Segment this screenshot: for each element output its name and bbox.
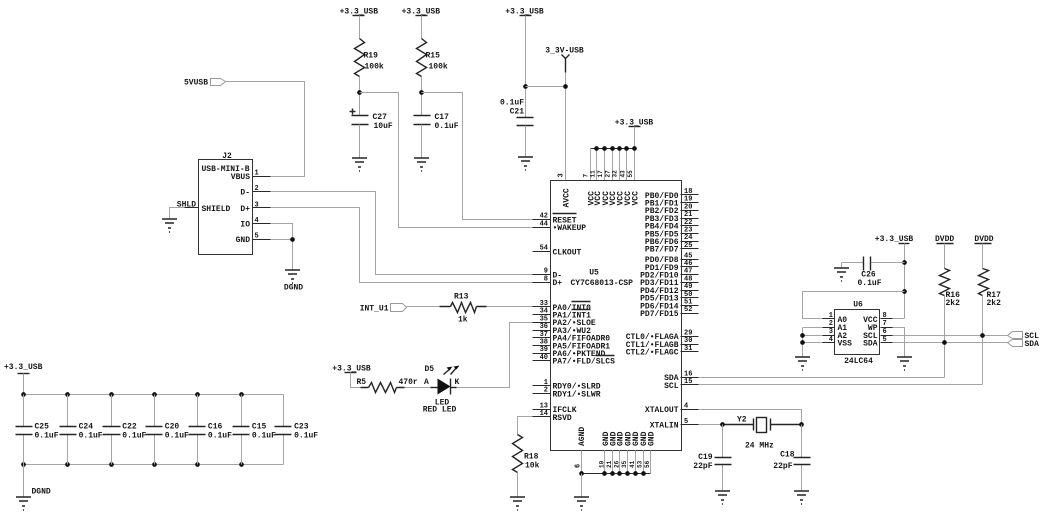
wire RSVD to R18 — [518, 417, 533, 435]
svg-text:R19: R19 — [364, 52, 379, 61]
wire DVDD to R16 — [944, 244, 946, 269]
junction top rail dots — [21, 392, 26, 397]
junction VSS — [800, 340, 805, 345]
svg-text:DVDD: DVDD — [974, 235, 993, 244]
capacitor C15 — [241, 395, 243, 465]
wire C17 to ground — [421, 125, 423, 158]
pin 39 PA6/*PKTEND — [533, 353, 551, 355]
SECTION: U5 main IC — [533, 170, 699, 510]
node 3_3V-USB stub symbol — [562, 55, 570, 73]
svg-text:11: 11 — [589, 170, 596, 178]
svg-text:32: 32 — [612, 170, 619, 178]
resistor R13 — [440, 303, 487, 313]
pin 3 A2 — [823, 335, 835, 337]
wire node to WAKEUP — [360, 93, 533, 228]
svg-text:2k2: 2k2 — [946, 299, 961, 308]
svg-text:+3.3_USB: +3.3_USB — [875, 235, 914, 244]
svg-text:27: 27 — [604, 170, 611, 178]
junction C21 node — [523, 84, 528, 89]
junction VCC bus dots — [594, 146, 599, 151]
pin 7 WP — [881, 327, 893, 329]
wire R16 to SDA net — [944, 296, 946, 378]
svg-text:52: 52 — [684, 306, 692, 314]
svg-text:D-: D- — [240, 189, 250, 198]
connector J2 box — [199, 160, 253, 255]
junction SDA pullup — [942, 340, 947, 345]
svg-text:D+: D+ — [553, 279, 563, 288]
wire +3.3 down right rail — [904, 244, 906, 319]
svg-text:DGND: DGND — [284, 284, 303, 293]
svg-text:25: 25 — [684, 242, 692, 250]
svg-text:0.1uF: 0.1uF — [294, 431, 318, 440]
wire C21 to ground — [525, 126, 527, 157]
svg-text:24 MHz: 24 MHz — [745, 442, 774, 451]
wire LED to PA2 — [451, 387, 457, 389]
svg-text:R13: R13 — [454, 293, 469, 302]
pin 48 PD3/FD11 — [681, 282, 699, 284]
pin 2 A1 — [823, 327, 835, 329]
pin 16 SDA — [681, 377, 699, 379]
svg-text:0.1uF: 0.1uF — [208, 431, 232, 440]
svg-text:10uF: 10uF — [374, 122, 393, 131]
ground R18 — [510, 497, 525, 510]
pin 25 PB7/FD7 — [681, 248, 699, 250]
pin 2 D- — [253, 191, 271, 193]
wire 3_3V-USB down to AVCC — [526, 73, 566, 181]
wire D- from J2 to U5 — [271, 192, 533, 275]
svg-text:CY7C68013-CSP: CY7C68013-CSP — [571, 279, 634, 288]
svg-text:AVCC: AVCC — [563, 188, 572, 207]
svg-text:XTALOUT: XTALOUT — [645, 406, 679, 415]
svg-text:35: 35 — [621, 460, 628, 468]
pin 15 SCL — [681, 384, 699, 386]
svg-text:DVDD: DVDD — [935, 235, 954, 244]
wire A1 A2 VSS to ground — [803, 328, 823, 357]
svg-text:C16: C16 — [208, 422, 223, 431]
capacitor C24 — [67, 395, 69, 465]
svg-text:SDA: SDA — [863, 340, 878, 349]
wire SHIELD to ground — [170, 208, 185, 219]
wire U5 SCL net — [699, 336, 983, 385]
pin 5 GND — [253, 239, 271, 241]
wire VCC bus — [591, 148, 635, 150]
junction GND bus dots — [579, 471, 584, 476]
wire IO to GND junction — [271, 224, 293, 240]
resistor R5 — [361, 383, 405, 393]
junction bottom rail dots — [21, 462, 26, 467]
svg-text:100k: 100k — [429, 63, 448, 72]
svg-text:XTALIN: XTALIN — [650, 422, 679, 431]
svg-text:100k: 100k — [365, 63, 384, 72]
svg-text:C18: C18 — [780, 450, 795, 459]
svg-text:24LC64: 24LC64 — [844, 357, 873, 366]
pin 1 RDY0/*SLRD — [533, 385, 551, 387]
junction crystal right — [799, 422, 804, 427]
svg-text:C20: C20 — [165, 422, 180, 431]
svg-text:5: 5 — [255, 233, 259, 241]
pin 19 PB1/FD1 — [681, 202, 699, 204]
pin 8 D+ — [533, 282, 551, 284]
pin 4 IO — [253, 223, 271, 225]
ground U5 AGND — [574, 497, 589, 510]
pin 40 PA7/*FLD/SLCS — [533, 360, 551, 362]
pin 4 VSS — [823, 342, 835, 344]
wire U5 SDA net — [699, 343, 945, 378]
junction R19/C27 — [357, 90, 362, 95]
pin 24 PB6/FD6 — [681, 241, 699, 243]
pin 5 XTALIN — [681, 424, 699, 426]
pin 44 *WAKEUP — [533, 227, 551, 229]
pin 29 CTL0/*FLAGA — [681, 336, 699, 338]
svg-text:SCL: SCL — [664, 382, 679, 391]
svg-text:D5: D5 — [425, 365, 435, 374]
pin 34 PA1/INT1 — [533, 314, 551, 316]
ground C18 — [794, 491, 809, 504]
node INT_U1 flag — [391, 304, 407, 312]
junction R15/C17 — [419, 90, 424, 95]
node SDA flag — [1008, 340, 1023, 347]
svg-text:•WAKEUP: •WAKEUP — [553, 224, 587, 233]
svg-text:0.1uF: 0.1uF — [435, 122, 459, 131]
svg-text:4: 4 — [255, 217, 259, 225]
svg-text:RED LED: RED LED — [423, 405, 457, 414]
svg-text:CTL2/•FLAGC: CTL2/•FLAGC — [626, 349, 679, 358]
pin 35 PA2/*SLOE — [533, 322, 551, 324]
svg-text:10k: 10k — [525, 462, 540, 471]
ground DGND under J2 — [285, 270, 300, 283]
crystal Y2 — [723, 419, 802, 431]
junction SCL pullup — [980, 333, 985, 338]
wire C27 to ground — [359, 125, 361, 158]
svg-text:C21: C21 — [510, 108, 525, 117]
ground C21 — [518, 157, 533, 170]
wire GND bus — [582, 473, 651, 475]
svg-text:VCC: VCC — [632, 191, 641, 206]
svg-text:0.1uF: 0.1uF — [857, 279, 881, 288]
capacitor C18 — [801, 425, 803, 491]
capacitor C27 (polarized) — [352, 116, 369, 125]
svg-text:54: 54 — [540, 245, 548, 253]
capacitor C19 — [722, 425, 724, 491]
svg-text:5VUSB: 5VUSB — [184, 78, 208, 87]
wire +3.3 to top rail — [23, 374, 25, 395]
svg-text:0.1uF: 0.1uF — [79, 431, 103, 440]
node 5VUSB flag — [211, 79, 226, 86]
svg-text:53: 53 — [637, 460, 644, 468]
wire GND to DGND — [271, 240, 293, 270]
ground U6 left — [795, 357, 810, 370]
svg-text:A: A — [424, 378, 429, 387]
svg-text:8: 8 — [883, 312, 887, 320]
svg-text:R5: R5 — [357, 378, 367, 387]
resistor R18 — [513, 435, 523, 473]
svg-text:470r: 470r — [399, 378, 418, 387]
svg-text:CLKOUT: CLKOUT — [553, 248, 582, 257]
svg-text:PB7/FD7: PB7/FD7 — [645, 246, 679, 255]
pin 31 CTL2/*FLAGC — [681, 351, 699, 353]
svg-text:PA7/•FLD/SLCS: PA7/•FLD/SLCS — [553, 358, 616, 367]
svg-text:5: 5 — [883, 336, 887, 344]
pin 18 PB0/FD0 — [681, 194, 699, 196]
svg-text:C19: C19 — [698, 453, 713, 462]
capacitor C21 — [517, 118, 534, 126]
svg-text:0.1uF: 0.1uF — [165, 431, 189, 440]
pin 4 XTALOUT — [681, 409, 699, 411]
svg-text:K: K — [455, 378, 460, 387]
ground U6 right — [897, 357, 912, 370]
svg-text:55: 55 — [627, 170, 634, 178]
wire VCC pin drops — [591, 149, 635, 181]
pin 45 PD0/FD8 — [681, 259, 699, 261]
svg-text:0.1uF: 0.1uF — [252, 431, 276, 440]
SECTION: R19/C27 and R15/C17 RC networks — [340, 8, 533, 228]
svg-text:+3.3_USB: +3.3_USB — [4, 363, 43, 372]
svg-text:C23: C23 — [294, 422, 309, 431]
pin 33 PA0/INT0 — [533, 306, 551, 308]
svg-text:VSS: VSS — [838, 340, 853, 349]
svg-text:42: 42 — [540, 213, 548, 221]
pin 2 RDY1/*SLWR — [533, 393, 551, 395]
ground C19 — [715, 491, 730, 504]
svg-text:U5: U5 — [589, 269, 599, 278]
SECTION: bottom-left capacitor bank — [4, 363, 318, 510]
svg-text:J2: J2 — [222, 152, 232, 161]
wire top rail to A0 — [803, 292, 905, 319]
wire VCC to rail — [893, 318, 905, 320]
svg-text:3: 3 — [558, 173, 566, 177]
pin 3 D+ — [253, 207, 271, 209]
wire R19 to C27 node — [359, 77, 361, 116]
svg-text:2: 2 — [255, 185, 259, 193]
wire WP to ground — [893, 328, 905, 357]
pin 8 VCC — [881, 318, 893, 320]
svg-text:C24: C24 — [79, 422, 94, 431]
svg-text:C15: C15 — [252, 422, 267, 431]
svg-text:GND: GND — [236, 236, 251, 245]
svg-text:1: 1 — [829, 312, 833, 320]
svg-text:0.1uF: 0.1uF — [122, 431, 146, 440]
svg-text:SHLD: SHLD — [177, 200, 196, 209]
svg-text:1k: 1k — [458, 316, 468, 325]
capacitor C20 — [154, 395, 156, 465]
op-amp U5 box — [551, 181, 682, 451]
svg-text:C25: C25 — [35, 422, 50, 431]
pin 36 PA3/*WU2 — [533, 330, 551, 332]
ground DGND cap bank — [16, 497, 31, 510]
wire C26 to ground — [841, 263, 843, 268]
svg-text:44: 44 — [540, 220, 548, 228]
SECTION: C21 / 3_3V-USB / VCC rail top of U5 — [500, 8, 653, 181]
LED D5 arrows — [444, 367, 458, 375]
svg-text:2: 2 — [829, 320, 833, 328]
svg-text:IO: IO — [240, 221, 250, 230]
capacitor C23 — [283, 395, 285, 465]
wire +3.3 to R5 — [351, 373, 361, 388]
wire U6 SCL to flag — [893, 335, 1008, 337]
wire bottom rail to DGND — [23, 465, 25, 497]
resistor R16 — [940, 269, 950, 296]
wire D+ from J2 to U5 — [271, 208, 533, 283]
junction crystal left — [720, 422, 725, 427]
capacitor C26 — [842, 262, 905, 264]
svg-text:R15: R15 — [426, 52, 441, 61]
SECTION: R13 INT / R5 LED / R18 — [332, 293, 539, 511]
wire R13 to PA0 — [487, 306, 533, 308]
junction IO/GND — [290, 237, 295, 242]
junction A2 — [800, 333, 805, 338]
pin 1 VBUS — [253, 176, 271, 178]
svg-text:0.1uF: 0.1uF — [500, 99, 524, 108]
svg-text:3: 3 — [255, 201, 259, 209]
svg-text:PD7/FD15: PD7/FD15 — [640, 310, 679, 319]
svg-text:DGND: DGND — [32, 488, 51, 497]
pin 9 D- — [533, 274, 551, 276]
svg-text:3_3V-USB: 3_3V-USB — [545, 47, 584, 56]
wire AGND to ground — [581, 474, 583, 497]
wire cap bank bottom rail — [24, 464, 284, 466]
pin 30 CTL1/*FLAGB — [681, 344, 699, 346]
svg-text:SDA: SDA — [1025, 340, 1040, 349]
wire AGND + GND pin drops — [582, 451, 651, 474]
pin 1 A0 — [823, 318, 835, 320]
svg-text:5: 5 — [684, 418, 688, 426]
svg-text:C22: C22 — [122, 422, 137, 431]
pin 5 SDA — [881, 342, 893, 344]
svg-text:4: 4 — [829, 336, 833, 344]
svg-text:40: 40 — [540, 354, 548, 362]
pin 54 CLKOUT — [533, 251, 551, 253]
svg-text:R18: R18 — [524, 453, 539, 462]
junction VCC rail node — [902, 289, 907, 294]
svg-text:1: 1 — [255, 170, 259, 178]
pin SHIELD — [185, 207, 199, 209]
wire DVDD to R17 — [982, 244, 984, 269]
wire cap bank top rail — [24, 394, 284, 396]
svg-text:8: 8 — [544, 275, 548, 283]
svg-text:2k2: 2k2 — [987, 299, 1002, 308]
capacitor C22 — [111, 395, 113, 465]
svg-text:2: 2 — [544, 387, 548, 395]
wire R18 to ground — [517, 473, 519, 497]
svg-text:SHIELD: SHIELD — [202, 205, 231, 214]
wire +3.3 to R19 — [359, 16, 361, 39]
capacitor C25 — [23, 395, 25, 465]
pin 6 SCL — [881, 335, 893, 337]
wire +3.3 to R15 — [421, 16, 423, 39]
wire INT_U1 to R13 — [407, 306, 440, 308]
SECTION: U6 EEPROM, C26, R16/R17 pullups, SCL/SDA flags — [699, 235, 1040, 385]
junction AVCC node — [563, 84, 568, 89]
svg-text:31: 31 — [684, 345, 692, 353]
wire +3.3 to VCC bus — [634, 127, 636, 149]
wire +3.3 to C21 node — [525, 16, 527, 118]
pin 14 RSVD — [533, 416, 551, 418]
pin 13 IFCLK — [533, 409, 551, 411]
pin 51 PD6/FD14 — [681, 305, 699, 307]
pin 49 PD4/FD12 — [681, 290, 699, 292]
pin 38 PA5/FIFOADR1 — [533, 345, 551, 347]
IC U6 box — [835, 310, 880, 355]
wire R5 to LED — [405, 387, 431, 389]
pin 42 RESET — [533, 219, 551, 221]
SECTION: top-left 5VUSB and J2 connector — [162, 78, 533, 292]
svg-text:C27: C27 — [373, 113, 388, 122]
pin 52 PD7/FD15 — [681, 313, 699, 315]
node SCL flag — [1008, 332, 1023, 339]
resistor R15 — [417, 39, 427, 77]
wire R15 to C17 node — [421, 77, 423, 116]
svg-text:U6: U6 — [853, 300, 863, 309]
pin 20 PB2/FD2 — [681, 210, 699, 212]
wire XTALOUT to crystal right — [699, 410, 802, 425]
svg-text:4: 4 — [684, 402, 688, 410]
wire R17 to SCL net — [982, 296, 984, 385]
SECTION: crystal Y2 with C19/C18 — [693, 410, 810, 505]
pin 47 PD2/FD10 — [681, 274, 699, 276]
svg-text:VBUS: VBUS — [231, 173, 250, 182]
svg-text:GND: GND — [648, 431, 657, 446]
wire 5VUSB to J2 VBUS — [226, 82, 305, 177]
svg-text:7: 7 — [883, 320, 887, 328]
ground C17 — [414, 158, 429, 171]
pin 21 PB3/FD3 — [681, 218, 699, 220]
LED D5 — [438, 379, 451, 395]
svg-text:0.1uF: 0.1uF — [35, 431, 59, 440]
pin 50 PD5/FD13 — [681, 297, 699, 299]
svg-text:RSVD: RSVD — [553, 414, 572, 423]
ground C27 — [352, 158, 367, 171]
svg-text:AGND: AGND — [578, 427, 587, 446]
svg-text:43: 43 — [619, 170, 626, 178]
capacitor C16 — [197, 395, 199, 465]
svg-text:22pF: 22pF — [693, 462, 712, 471]
wire U6 SDA to flag — [893, 342, 1008, 344]
pin 37 PA4/FIFOADR0 — [533, 337, 551, 339]
svg-text:Y2: Y2 — [737, 415, 747, 424]
svg-text:17: 17 — [597, 170, 604, 178]
svg-text:C17: C17 — [435, 113, 450, 122]
wire XTALIN to crystal left — [699, 424, 723, 426]
svg-text:41: 41 — [629, 460, 636, 468]
svg-text:15: 15 — [684, 378, 692, 386]
svg-text:INT_U1: INT_U1 — [360, 304, 389, 313]
resistor R19 — [355, 39, 365, 77]
ground SHLD — [162, 219, 177, 232]
svg-text:14: 14 — [540, 410, 548, 418]
capacitor C17 — [414, 116, 431, 125]
ground C26 — [834, 268, 849, 281]
svg-text:RDY1/•SLWR: RDY1/•SLWR — [553, 390, 601, 399]
wire node to RESET — [422, 93, 533, 220]
pin 22 PB4/FD4 — [681, 225, 699, 227]
svg-text:D+: D+ — [240, 205, 250, 214]
junction C26 node — [902, 260, 907, 265]
pin 23 PB5/FD5 — [681, 233, 699, 235]
pin 46 PD1/FD9 — [681, 266, 699, 268]
resistor R17 — [979, 269, 989, 296]
svg-text:22pF: 22pF — [773, 462, 792, 471]
